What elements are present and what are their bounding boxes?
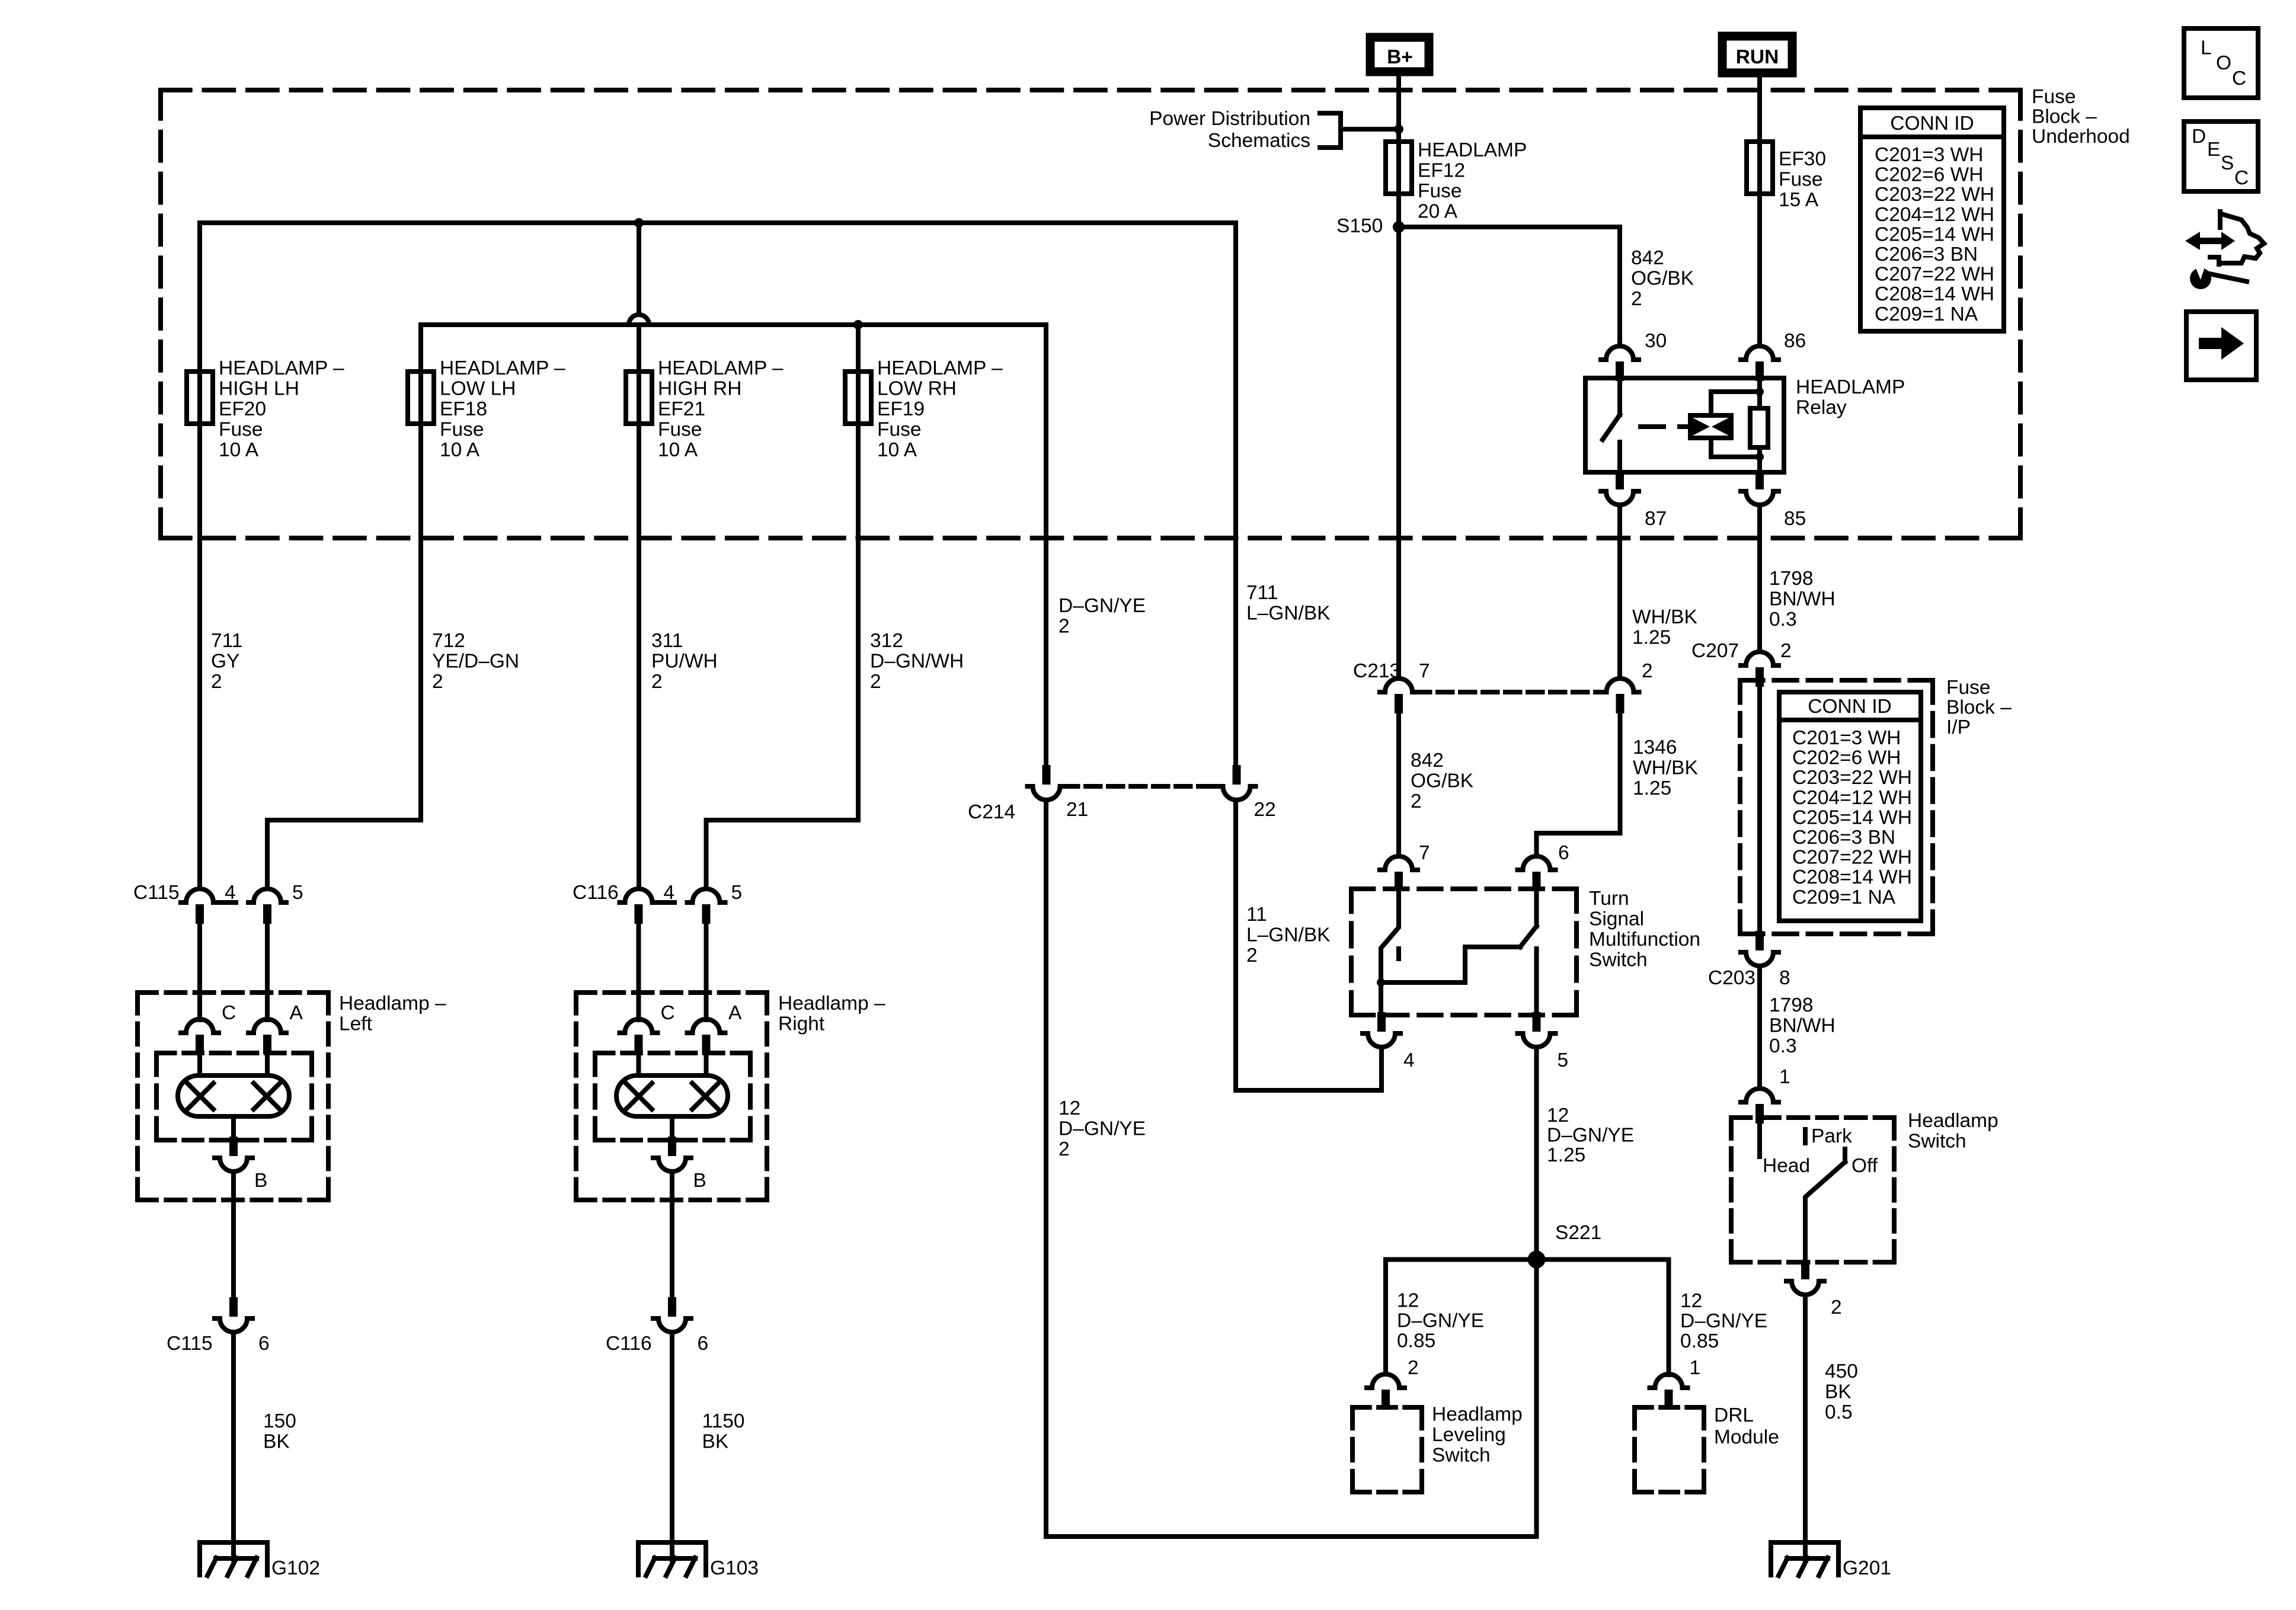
wire bulb to pin B (670, 1116, 674, 1142)
svg-text:1.25: 1.25 (1633, 777, 1671, 799)
svg-text:HEADLAMP –: HEADLAMP – (658, 357, 784, 379)
power distribution schematics reference bracket (1320, 113, 1399, 148)
svg-text:Power Distribution: Power Distribution (1149, 108, 1310, 130)
svg-text:85: 85 (1784, 508, 1806, 530)
svg-text:711: 711 (1246, 582, 1278, 604)
svg-text:EF18: EF18 (440, 398, 487, 420)
headlamp left bulb housing dashed box (156, 1053, 312, 1140)
svg-text:Off: Off (1851, 1155, 1878, 1177)
label headlamp left (339, 993, 446, 1035)
svg-text:E: E (2207, 139, 2220, 161)
svg-text:C207=22 WH: C207=22 WH (1792, 847, 1912, 869)
svg-text:C206=3 BN: C206=3 BN (1792, 827, 1895, 849)
svg-text:Head: Head (1763, 1155, 1810, 1177)
svg-text:0.3: 0.3 (1769, 609, 1797, 630)
svg-text:D–GN/YE: D–GN/YE (1059, 1118, 1146, 1140)
svg-text:711: 711 (211, 630, 242, 652)
connector C115 pin 5 (248, 889, 286, 924)
connector relay pin 30 (1601, 346, 1639, 381)
svg-text:4: 4 (1403, 1049, 1415, 1071)
headlamp switch blade (1805, 1162, 1845, 1262)
connector turn signal switch pin 7 (1380, 856, 1418, 891)
svg-text:Block –: Block – (2032, 106, 2097, 128)
wire 842 OG/BK to switch pin 7 (1396, 713, 1401, 856)
dashed connector link C115 (219, 900, 236, 905)
svg-text:Park: Park (1811, 1125, 1852, 1147)
svg-text:0.3: 0.3 (1769, 1035, 1797, 1057)
svg-text:DRL: DRL (1714, 1404, 1754, 1426)
svg-text:C: C (222, 1002, 236, 1024)
svg-text:87: 87 (1645, 508, 1667, 530)
svg-text:Left: Left (339, 1013, 373, 1035)
svg-text:2: 2 (1780, 640, 1792, 662)
icon DESC box (2184, 121, 2258, 191)
svg-text:C: C (2232, 68, 2246, 89)
connector C116 pin 4 (620, 889, 658, 924)
label wire WH/BK 1.25 (1632, 606, 1697, 649)
wire C115-5 to headlamp A (265, 924, 270, 1020)
svg-text:WH/BK: WH/BK (1632, 606, 1697, 628)
connector C214 pin 22 (1218, 765, 1256, 800)
svg-text:C209=1 NA: C209=1 NA (1792, 886, 1896, 908)
svg-text:12: 12 (1397, 1290, 1419, 1312)
wire D-GN/YE drop to C214-21 (1044, 325, 1048, 767)
svg-text:5: 5 (1558, 1049, 1569, 1071)
turn signal multifunction switch dashed box (1351, 889, 1576, 1015)
svg-text:C206=3 BN: C206=3 BN (1875, 244, 1978, 265)
label wire 150 BK (263, 1410, 296, 1453)
svg-text:6: 6 (258, 1333, 270, 1355)
label power distribution schematics (1149, 108, 1310, 152)
svg-text:B: B (693, 1170, 706, 1192)
wire C to bulb (637, 1054, 641, 1076)
svg-text:5: 5 (292, 882, 303, 904)
headlamp right outer dashed box (576, 993, 767, 1200)
svg-text:Turn: Turn (1589, 888, 1629, 910)
svg-text:12: 12 (1547, 1105, 1569, 1126)
svg-text:6: 6 (698, 1333, 709, 1355)
relay coil (1690, 415, 1731, 438)
svg-text:BN/WH: BN/WH (1769, 1015, 1835, 1037)
node S221 (1528, 1251, 1546, 1269)
svg-text:C207=22 WH: C207=22 WH (1875, 264, 1994, 286)
wire 12 D-GN/YE from pin 5 to S221 (1534, 1049, 1539, 1260)
svg-text:1: 1 (1779, 1066, 1790, 1088)
label headlamp relay (1796, 376, 1905, 419)
wire EF21 branch upper (637, 223, 641, 315)
svg-text:Block –: Block – (1946, 697, 2012, 719)
node S150 (1393, 221, 1405, 233)
svg-text:C116: C116 (606, 1333, 652, 1355)
svg-text:C203: C203 (1708, 967, 1755, 989)
svg-text:2: 2 (1411, 790, 1422, 812)
svg-text:D–GN/YE: D–GN/YE (1397, 1310, 1484, 1332)
svg-text:Leveling: Leveling (1432, 1424, 1506, 1446)
svg-text:C209=1 NA: C209=1 NA (1875, 303, 1978, 325)
fuse block I/P dashed box (1740, 680, 1933, 934)
svg-text:12: 12 (1059, 1097, 1080, 1119)
label headlamp right (778, 993, 885, 1035)
bulb headlamp left (178, 1076, 289, 1116)
svg-text:HEADLAMP –: HEADLAMP – (219, 357, 344, 379)
label fuse EF20 (219, 357, 344, 461)
label wire 1150 BK (702, 1410, 745, 1453)
wire 450 BK to ground (1803, 1295, 1808, 1560)
headlamp switch park contact (1803, 1129, 1808, 1143)
connector relay pin 86 (1741, 346, 1779, 381)
switch open contact tick (1396, 949, 1401, 959)
svg-text:8: 8 (1779, 967, 1790, 989)
switch common to high-beam blade (1381, 947, 1520, 982)
label headlamp switch (1908, 1110, 1998, 1153)
icon vehicle repair with wrench (2185, 212, 2264, 289)
svg-text:2: 2 (1631, 288, 1642, 310)
svg-text:LOW LH: LOW LH (440, 378, 516, 400)
relay resistor (1750, 408, 1768, 447)
svg-text:YE/D–GN: YE/D–GN (432, 651, 519, 673)
wire 1798 BN/WH from relay 85 (1757, 505, 1762, 652)
svg-text:C208=14 WH: C208=14 WH (1875, 283, 1994, 305)
connector C213 pin 7 (1380, 678, 1418, 713)
svg-text:C202=6 WH: C202=6 WH (1792, 747, 1901, 769)
node coil-resistor top (1755, 388, 1764, 396)
dashed connector link C214 (1063, 784, 1220, 789)
label wire 842 OG/BK 2 (upper) (1631, 247, 1694, 310)
wire EF20 branch (197, 223, 202, 889)
label wire 11 L-GN/BK 2 (1246, 904, 1331, 966)
ground G103 (638, 1542, 706, 1576)
label fuse EF19 (877, 357, 1003, 461)
fuse EF12 HEADLAMP 20A (1386, 142, 1412, 194)
svg-text:7: 7 (1419, 660, 1430, 682)
svg-text:1150: 1150 (702, 1410, 745, 1432)
switch pin5 contact line (1534, 949, 1539, 1014)
connector C207 pin 2 (1741, 652, 1779, 687)
svg-text:EF20: EF20 (219, 398, 266, 420)
svg-text:L–GN/BK: L–GN/BK (1246, 603, 1331, 625)
svg-text:B+: B+ (1387, 46, 1413, 68)
wire A to bulb (265, 1054, 270, 1076)
svg-text:C201=3 WH: C201=3 WH (1792, 727, 1901, 749)
wire EF18 branch (267, 325, 421, 889)
label wire D-GN/YE 2 (1059, 595, 1146, 638)
svg-text:5: 5 (731, 882, 743, 904)
label wire 312 D-GN/WH 2 (870, 630, 964, 693)
label wire 12 D-GN/YE 1.25 (1547, 1105, 1634, 1166)
dashed connector link C213 (1415, 690, 1604, 694)
svg-text:10 A: 10 A (658, 439, 698, 461)
svg-text:Fuse: Fuse (1779, 169, 1822, 191)
label wire 1798 BN/WH 0.3 (upper) (1769, 568, 1835, 630)
connector headlamp switch pin 1 (1741, 1089, 1779, 1124)
svg-text:Module: Module (1714, 1426, 1779, 1448)
svg-text:0.85: 0.85 (1680, 1330, 1719, 1352)
svg-text:BK: BK (263, 1431, 290, 1453)
wire C115-4 to headlamp C (197, 924, 202, 1020)
headlamp leveling switch dashed box (1352, 1407, 1422, 1492)
svg-text:G102: G102 (271, 1557, 320, 1579)
svg-text:C116: C116 (573, 882, 619, 904)
ground G201 (1771, 1542, 1838, 1576)
dashed connector link C116 (658, 900, 674, 905)
svg-text:1798: 1798 (1769, 568, 1814, 590)
svg-text:C214: C214 (968, 801, 1015, 823)
node coil-resistor bottom (1755, 453, 1764, 461)
svg-text:D–GN/WH: D–GN/WH (870, 651, 964, 673)
wire RUN feed to relay pin 86 (1757, 76, 1762, 345)
svg-text:C201=3 WH: C201=3 WH (1875, 144, 1983, 166)
relay switch common (1617, 380, 1622, 415)
svg-text:C: C (661, 1002, 675, 1024)
svg-text:150: 150 (263, 1410, 296, 1432)
svg-text:A: A (728, 1002, 742, 1024)
svg-text:842: 842 (1631, 247, 1664, 269)
fuse EF30 15A (1747, 142, 1773, 194)
CONN ID table I/P (1779, 692, 1921, 921)
svg-text:2: 2 (1831, 1297, 1842, 1318)
connector turn signal switch pin 4 (1363, 1012, 1400, 1047)
svg-text:RUN: RUN (1736, 46, 1779, 68)
svg-text:2: 2 (651, 671, 663, 693)
svg-text:HEADLAMP –: HEADLAMP – (877, 357, 1003, 379)
svg-text:450: 450 (1825, 1361, 1858, 1382)
svg-text:Headlamp –: Headlamp – (778, 993, 885, 1014)
wire 12 D-GN/YE 2 from C214-21 to S221 (1046, 800, 1537, 1537)
connector turn signal switch pin 6 (1518, 856, 1556, 891)
connector headlamp left pin B (215, 1137, 252, 1172)
icon forward arrow box (2186, 312, 2256, 380)
relay coil leads (1711, 392, 1760, 415)
fuse EF19 HEADLAMP-LOW RH 10A (845, 372, 871, 424)
svg-text:OG/BK: OG/BK (1411, 770, 1473, 792)
svg-text:1346: 1346 (1633, 737, 1677, 758)
svg-text:2: 2 (1642, 660, 1653, 682)
connector relay pin 85 (1741, 470, 1779, 505)
svg-text:HEADLAMP: HEADLAMP (1418, 139, 1527, 161)
node second bus to EF19 (853, 320, 863, 329)
svg-text:Schematics: Schematics (1208, 130, 1310, 152)
svg-text:311: 311 (651, 630, 683, 652)
svg-text:Signal: Signal (1589, 908, 1644, 930)
fuse EF18 HEADLAMP-LOW LH 10A (408, 372, 434, 424)
svg-text:15 A: 15 A (1779, 189, 1819, 211)
svg-text:2: 2 (1246, 945, 1258, 966)
svg-text:BK: BK (702, 1431, 729, 1453)
svg-text:Headlamp –: Headlamp – (339, 993, 446, 1014)
svg-text:Relay: Relay (1796, 397, 1847, 419)
wire C116-5 to headlamp A (704, 924, 709, 1020)
wire A to bulb (704, 1054, 709, 1076)
switch pin7 blade to common (1381, 888, 1399, 982)
svg-text:HEADLAMP –: HEADLAMP – (440, 357, 565, 379)
svg-text:C115: C115 (133, 882, 180, 904)
svg-text:12: 12 (1680, 1290, 1702, 1312)
label fuse EF12 (1418, 139, 1527, 223)
svg-text:10 A: 10 A (877, 439, 917, 461)
svg-text:L–GN/BK: L–GN/BK (1246, 924, 1331, 946)
svg-text:Switch: Switch (1908, 1131, 1966, 1153)
label wire 712 YE/D-GN 2 (432, 630, 519, 693)
fuse block underhood label (2032, 86, 2130, 148)
wire B to C115-6 (231, 1172, 236, 1301)
headlamp switch off contact (1843, 1149, 1847, 1162)
svg-text:21: 21 (1066, 799, 1088, 821)
svg-text:1.25: 1.25 (1547, 1144, 1585, 1166)
wire 11 L-GN/BK from pin 4 to 711 riser (1236, 1049, 1382, 1090)
label wire 450 BK 0.5 (1825, 1361, 1858, 1423)
label headlamp leveling switch (1432, 1404, 1523, 1467)
svg-text:EF30: EF30 (1779, 148, 1826, 170)
svg-text:C203=22 WH: C203=22 WH (1792, 767, 1912, 789)
svg-text:Fuse: Fuse (440, 419, 484, 441)
svg-text:WH/BK: WH/BK (1633, 757, 1698, 779)
connector C213 pin 2 (1601, 678, 1639, 713)
switch common to pin 4 (1379, 982, 1383, 1014)
connector C115 pin 6 (215, 1297, 252, 1332)
CONN ID table underhood (1860, 108, 2004, 331)
connector headlamp right pin A (687, 1019, 725, 1054)
svg-text:312: 312 (870, 630, 903, 652)
wire C to bulb (197, 1054, 202, 1076)
svg-text:C207: C207 (1691, 640, 1739, 662)
wire 711/11 L-GN/BK riser below C214 (1233, 800, 1238, 1090)
svg-text:B: B (254, 1170, 267, 1192)
connector turn signal switch pin 5 (1518, 1012, 1556, 1047)
relay headlamp box (1585, 378, 1784, 472)
svg-text:C208=14 WH: C208=14 WH (1792, 866, 1912, 888)
svg-text:A: A (290, 1002, 303, 1024)
svg-text:C202=6 WH: C202=6 WH (1875, 164, 1983, 186)
svg-text:Fuse: Fuse (219, 419, 263, 441)
svg-text:1.25: 1.25 (1632, 627, 1671, 649)
wire B+ feed / 842 OG/BK down to C213 (1396, 76, 1401, 678)
svg-text:1: 1 (1690, 1357, 1701, 1379)
switch high blade (1520, 926, 1537, 947)
fuse EF21 HEADLAMP-HIGH RH 10A (626, 372, 652, 424)
svg-text:G201: G201 (1843, 1557, 1891, 1579)
connector C116 pin 6 (653, 1297, 691, 1332)
svg-text:CONN ID: CONN ID (1808, 696, 1891, 718)
headlamp switch dashed box (1731, 1118, 1894, 1262)
svg-text:20 A: 20 A (1418, 201, 1458, 223)
label wire 12 D-GN/YE 0.85 (right) (1680, 1290, 1767, 1352)
svg-text:842: 842 (1411, 750, 1444, 772)
connector C214 pin 21 (1028, 765, 1066, 800)
svg-text:Multifunction: Multifunction (1589, 929, 1700, 950)
svg-text:S: S (2221, 152, 2234, 174)
switch pin6 wire (1534, 892, 1539, 926)
label wire 1346 WH/BK 1.25 (1633, 737, 1698, 799)
svg-text:712: 712 (432, 630, 465, 652)
svg-text:I/P: I/P (1946, 716, 1971, 738)
label fuse EF18 (440, 357, 565, 461)
svg-text:Switch: Switch (1432, 1445, 1491, 1467)
svg-text:D–GN/YE: D–GN/YE (1680, 1310, 1767, 1332)
DRL module dashed box (1635, 1407, 1704, 1492)
node: bracket junction on B+ wire (1394, 124, 1403, 134)
svg-text:CONN ID: CONN ID (1890, 113, 1974, 135)
connector C115 pin 4 (181, 889, 219, 924)
svg-text:22: 22 (1254, 799, 1276, 821)
svg-text:C203=22 WH: C203=22 WH (1875, 184, 1994, 206)
icon LOC box (2184, 28, 2258, 98)
label wire 842 OG/BK 2 (lower) (1411, 750, 1473, 812)
svg-text:C205=14 WH: C205=14 WH (1792, 806, 1912, 828)
svg-text:Fuse: Fuse (2032, 86, 2076, 108)
svg-text:2: 2 (1059, 1138, 1070, 1160)
connector headlamp right pin B (653, 1137, 691, 1172)
connector headlamp right pin C (620, 1019, 658, 1054)
svg-text:Headlamp: Headlamp (1432, 1404, 1523, 1426)
label wire 711 L-GN/BK (1246, 582, 1331, 625)
wire through fuse block I/P (1757, 683, 1762, 934)
svg-text:2: 2 (1059, 616, 1070, 638)
relay actuation linkage (1641, 424, 1690, 429)
relay 86 internal wire (1757, 380, 1762, 408)
svg-text:C204=12 WH: C204=12 WH (1792, 787, 1912, 809)
svg-text:2: 2 (870, 671, 881, 693)
svg-text:C: C (2234, 167, 2249, 189)
svg-text:6: 6 (1558, 842, 1569, 864)
svg-text:10 A: 10 A (440, 439, 480, 461)
label wire 311 PU/WH 2 (651, 630, 718, 693)
svg-text:2: 2 (211, 671, 222, 693)
svg-text:86: 86 (1784, 330, 1806, 352)
wire hop over low-beam bus (629, 315, 649, 325)
svg-text:D: D (2192, 126, 2206, 148)
fuse block I/P label (1946, 677, 2012, 738)
wire 1798 BN/WH to headlamp switch (1757, 966, 1762, 1089)
svg-text:GY: GY (211, 651, 239, 673)
svg-text:D–GN/YE: D–GN/YE (1059, 595, 1146, 617)
node top bus to EF21 (634, 218, 644, 228)
wire 711 L-GN/BK drop to C214-22 (1233, 223, 1238, 767)
node switch common (1377, 978, 1385, 987)
wire bulb to pin B (231, 1116, 236, 1142)
svg-text:2: 2 (432, 671, 443, 693)
connector headlamp left pin C (181, 1019, 219, 1054)
wire EF21 branch lower (637, 325, 641, 889)
svg-text:2: 2 (1408, 1357, 1419, 1379)
svg-text:C213: C213 (1353, 660, 1400, 682)
svg-text:LOW RH: LOW RH (877, 378, 957, 400)
svg-text:G103: G103 (710, 1557, 759, 1579)
wire S221 to DRL module (1537, 1260, 1669, 1375)
svg-text:HEADLAMP: HEADLAMP (1796, 376, 1905, 398)
svg-text:D–GN/YE: D–GN/YE (1547, 1125, 1634, 1147)
fuse EF20 HEADLAMP-HIGH LH 10A (187, 372, 213, 424)
svg-text:OG/BK: OG/BK (1631, 268, 1694, 290)
svg-text:0.5: 0.5 (1825, 1401, 1853, 1423)
wire WH/BK from relay 87 (1617, 505, 1622, 678)
wire S150 to relay pin 30 (842 OG/BK) (1399, 227, 1620, 345)
svg-text:11: 11 (1246, 904, 1267, 926)
label fuse EF30 (1779, 148, 1826, 211)
wire top bus (high beam feed 711) (200, 220, 1236, 225)
headlamp switch head contact wire (1757, 1120, 1762, 1157)
svg-text:BK: BK (1825, 1381, 1851, 1403)
connector headlamp switch pin 2 (1786, 1260, 1824, 1295)
svg-text:Fuse: Fuse (1946, 677, 1990, 699)
B+ terminal (1370, 37, 1429, 72)
svg-text:BN/WH: BN/WH (1769, 588, 1835, 610)
wire second bus (low beam feed) (421, 322, 1046, 327)
svg-text:30: 30 (1645, 330, 1667, 352)
svg-text:EF19: EF19 (877, 398, 925, 420)
headlamp right bulb housing dashed box (595, 1053, 750, 1140)
label wire 12 D-GN/YE 2 (1059, 1097, 1146, 1160)
wire 150 BK to ground (231, 1332, 236, 1560)
